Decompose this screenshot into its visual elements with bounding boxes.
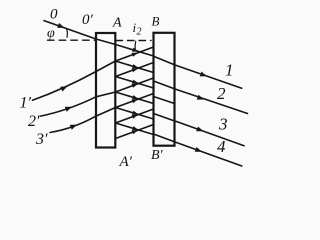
- svg-text:A′: A′: [119, 154, 133, 170]
- wire: dashed horizontal between plates: [116, 40, 151, 42]
- wire: gap ascending 1: [116, 47, 154, 61]
- svg-text:φ: φ: [47, 26, 55, 41]
- wire: arrowhead ray 0: [57, 23, 64, 28]
- wire: gap descending 1: [116, 61, 154, 73]
- wire: inside plate B internal stub: [154, 97, 175, 104]
- wire: ray 2' incident: [41, 97, 97, 116]
- node: angle phi arc: [66, 29, 69, 38]
- wire: inside plate B to ray 2: [154, 81, 176, 89]
- wire: dashed horizontal left of plate A: [48, 39, 96, 41]
- wire: ray 1 output: [175, 65, 242, 88]
- wire: gap descending 4: [116, 108, 154, 120]
- svg-text:1: 1: [225, 61, 234, 80]
- wire: gap ascending 3: [116, 78, 154, 92]
- svg-text:A: A: [112, 16, 122, 31]
- svg-text:2′: 2′: [28, 113, 40, 130]
- wire: ray 4 output: [175, 142, 242, 166]
- wire: ray 2 output: [175, 89, 248, 114]
- wire: arrowhead ray 1': [60, 86, 67, 91]
- wire: gap descending 3: [116, 92, 154, 104]
- wire: gap ascending 4: [116, 94, 154, 108]
- plate A: [96, 33, 115, 148]
- wire: arrowhead ray 3': [70, 125, 77, 130]
- wire: ray 1' incident: [33, 72, 97, 101]
- svg-text:1′: 1′: [20, 95, 32, 112]
- wire: ray 2' inside plate A: [96, 92, 116, 97]
- wire: gap ascending 6: [116, 125, 154, 139]
- wire: arrowhead ray 2': [65, 107, 72, 112]
- wire: ray 3 output: [177, 122, 245, 146]
- wire: gap descending 0: [116, 45, 154, 57]
- wire: gap descending 2: [116, 77, 154, 89]
- wire: gap ascending 2: [116, 63, 154, 77]
- svg-text:4: 4: [217, 137, 226, 156]
- svg-text:3: 3: [218, 115, 228, 134]
- wire: gap descending 5: [116, 123, 154, 135]
- node: angle i2 tick: [134, 41, 137, 49]
- svg-text:2: 2: [137, 27, 142, 38]
- wire: ray 0 incident: [44, 21, 96, 39]
- svg-text:2: 2: [217, 84, 226, 103]
- svg-text:B: B: [152, 14, 160, 29]
- wire: inside plate B to ray 3: [154, 114, 177, 122]
- wire: gap ascending 5: [116, 109, 154, 123]
- svg-text:3′: 3′: [35, 131, 48, 148]
- wire: inside plate B to ray 1: [154, 56, 176, 65]
- wire: ray 1' inside plate A: [96, 61, 116, 72]
- wire: ray 3' inside plate A: [96, 108, 116, 117]
- svg-text:0: 0: [50, 7, 58, 23]
- wire: ray 0 inside plate A: [96, 39, 116, 45]
- svg-text:B′: B′: [151, 148, 164, 163]
- plate B: [154, 33, 175, 146]
- svg-text:0′: 0′: [82, 12, 94, 28]
- wire: ray 3' incident: [50, 116, 96, 132]
- wire: inside plate B to ray 4: [154, 134, 176, 142]
